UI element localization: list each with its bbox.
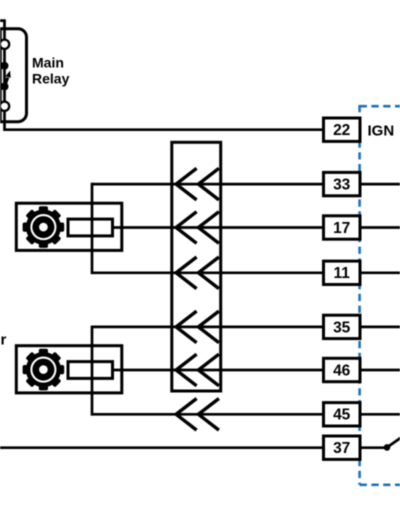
sensor G2 (reluctor pickup) [16, 346, 122, 393]
pin 11 [324, 261, 361, 284]
ECU boundary (dashed) [360, 105, 400, 485]
wire pin 45 internal [360, 413, 400, 416]
connector contacts row 11 [176, 257, 219, 289]
node B vertical wire sensor 2 [91, 326, 94, 416]
svg-text:17: 17 [333, 220, 350, 237]
svg-text:Main: Main [32, 55, 64, 71]
sensor G1 (reluctor pickup) [16, 203, 122, 250]
svg-text:46: 46 [333, 362, 351, 379]
wire pin 46 internal [360, 369, 400, 372]
svg-text:33: 33 [333, 177, 351, 194]
connector J1 body [172, 142, 221, 391]
wire ground to pin 37 [0, 446, 324, 449]
wire pin 17 internal [360, 226, 400, 229]
wire node B to pin 45 [92, 413, 324, 416]
wire pin 11 internal [360, 271, 400, 274]
pin 17 [324, 216, 361, 239]
svg-text:r: r [1, 332, 7, 349]
pin 46 [324, 358, 361, 381]
wire B+ to pin 22 [0, 21, 324, 130]
pin 45 [324, 403, 361, 426]
connector contacts row 33 [176, 168, 219, 200]
connector contacts row 17 [176, 212, 219, 244]
wire node B to pin 35 [92, 326, 324, 329]
wire sensor 2 shield to pin 46 [112, 369, 324, 372]
node A vertical wire sensor 1 [91, 183, 94, 274]
svg-text:45: 45 [333, 407, 351, 424]
connector contacts row 46 [176, 354, 219, 386]
switch S1 (pin 37 to ground) [384, 438, 400, 451]
pin 22 [324, 118, 361, 141]
pin 35 [324, 315, 361, 338]
relay K1 Main Relay [0, 29, 27, 122]
pin 33 [324, 172, 361, 195]
wire node A to pin 33 [92, 183, 324, 186]
connector contacts row 45 [176, 399, 219, 431]
wire node A to pin 11 [92, 271, 324, 274]
svg-text:Relay: Relay [32, 71, 70, 87]
svg-text:35: 35 [333, 319, 351, 336]
pin 37 [324, 436, 361, 459]
wire pin 37 internal [360, 446, 387, 449]
svg-text:22: 22 [333, 122, 350, 139]
connector contacts row 35 [176, 311, 219, 343]
svg-text:11: 11 [334, 265, 351, 282]
svg-text:IGN: IGN [368, 122, 395, 139]
wire pin 35 internal [360, 326, 400, 329]
svg-text:37: 37 [333, 440, 350, 457]
wire sensor 1 shield to pin 17 [112, 226, 324, 229]
wire pin 33 internal [360, 183, 400, 186]
